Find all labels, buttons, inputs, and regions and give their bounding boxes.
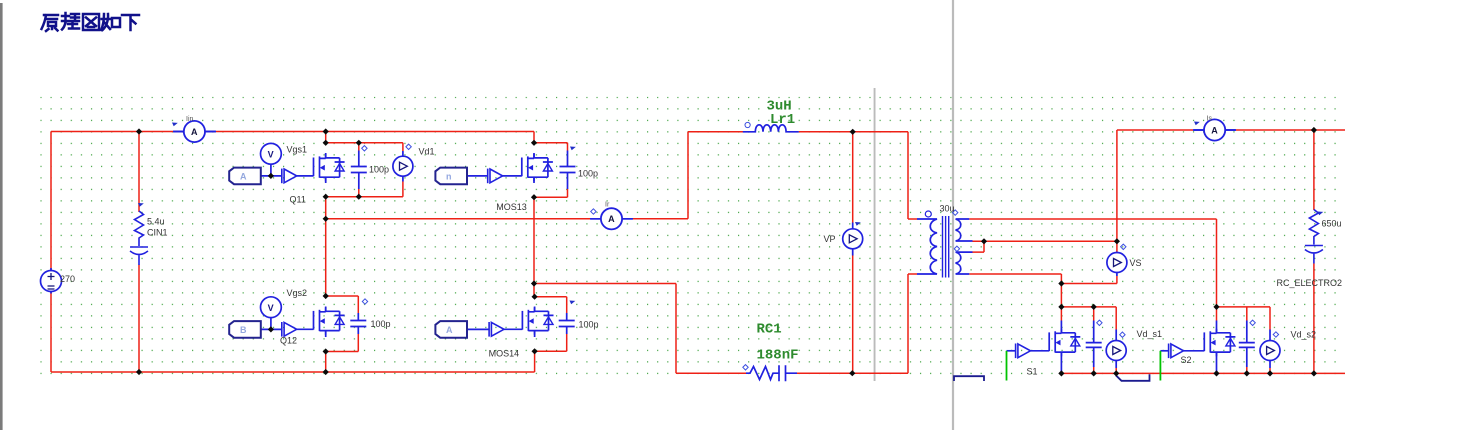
- transistor S1: [1027, 329, 1081, 377]
- wire CIN1 branch top: [138, 132, 140, 213]
- svg-text:B: B: [240, 325, 247, 335]
- wire center tap: [973, 241, 1117, 252]
- wire Vd_s2 stubs: [1269, 330, 1271, 369]
- svg-text:A: A: [446, 325, 453, 335]
- wire Q11 drain drop: [325, 132, 327, 143]
- node Lr1 out: [850, 129, 856, 135]
- svg-text:100p: 100p: [578, 169, 598, 179]
- svg-text:Vd1: Vd1: [419, 147, 435, 157]
- transistor Q12: [280, 307, 345, 345]
- ammeter A2 (Ir): [591, 202, 633, 230]
- transistor S2: [1181, 329, 1236, 365]
- capacitor C2 100p: [560, 151, 576, 190]
- voltmeter VP: [824, 222, 863, 249]
- capacitor C3 100p: [350, 313, 366, 334]
- node S1 box TL: [1058, 304, 1064, 310]
- node Q11 cap top: [356, 140, 362, 146]
- node S2 source rail: [1213, 370, 1219, 376]
- wire Q12 drain blue stub: [325, 307, 327, 338]
- svg-text:Vd_s1: Vd_s1: [1137, 329, 1163, 339]
- voltage source V1 270V: [41, 268, 76, 294]
- node Q11 box BL: [323, 194, 329, 200]
- voltmeter Vgs2: [261, 288, 308, 318]
- wire Q12 gate link: [297, 328, 314, 330]
- svg-text:5.4u: 5.4u: [147, 217, 165, 227]
- buffer U3: [282, 322, 297, 337]
- voltmeter Vd1: [393, 144, 435, 176]
- wire right leg mid: [533, 197, 535, 297]
- capacitor C4 100p: [559, 313, 575, 334]
- wire MOS14 box: [535, 297, 567, 352]
- node S1 source rail: [1058, 370, 1064, 376]
- wire S1 gate green-link: [1007, 350, 1016, 352]
- title 原理图如下 (drawn strokes): [42, 13, 140, 31]
- wire MOS14 source to bottom rail: [534, 351, 536, 372]
- clipped component below transformer: [954, 376, 984, 381]
- wire S1 gate drive (green): [1006, 351, 1008, 381]
- node S2 drain: [1213, 304, 1219, 310]
- node VS top: [1114, 238, 1120, 244]
- svg-text:Q11: Q11: [290, 195, 306, 205]
- node Q11 box TL: [323, 140, 329, 146]
- wire S2 source lead: [1216, 352, 1218, 373]
- wire S2 cap lead: [1246, 321, 1248, 368]
- node S1 cap top: [1091, 304, 1097, 310]
- wire secondary top to S2: [969, 219, 1216, 307]
- grid dot field: [40, 97, 1337, 375]
- wire MOS13 drain blue stub: [533, 153, 535, 183]
- ammeter Is: [1194, 116, 1236, 141]
- svg-text:S2: S2: [1181, 355, 1192, 365]
- wire S2 drain lead: [1216, 321, 1218, 333]
- wire Q11 gate link: [297, 175, 314, 177]
- page divider line (full height): [952, 0, 954, 430]
- transformer TX1 30u: [917, 216, 973, 278]
- capacitor C6 (S2 snubber): [1239, 343, 1255, 348]
- wire bridge mid to ammeter: [326, 132, 744, 219]
- voltmeter VS: [1107, 244, 1142, 272]
- voltmeter Vd_s2: [1260, 330, 1316, 361]
- wire top rail left: [51, 131, 534, 133]
- wire Q12 box: [326, 296, 359, 352]
- svg-text:Ir: Ir: [605, 202, 610, 209]
- wire VS bottom link: [1061, 276, 1117, 284]
- transistor MOS13: [496, 154, 553, 212]
- wire S1 cap lead: [1093, 321, 1095, 368]
- wire VP branch: [852, 132, 854, 373]
- node bridge mid left: [323, 216, 329, 222]
- node Vd_s1 rail: [1113, 370, 1119, 376]
- node Q12 rail: [323, 369, 329, 375]
- capacitor CIN1 electrolytic: [130, 203, 168, 265]
- node Vd_s2 rail: [1267, 370, 1273, 376]
- wire Vgs1 stub: [270, 164, 272, 176]
- wire output ground rail: [1061, 372, 1345, 374]
- wire Vgs2 stub: [270, 318, 272, 330]
- wire left rail: [50, 132, 52, 373]
- node Vgs2 tap: [268, 326, 274, 332]
- wire S1 drain lead: [1060, 321, 1062, 333]
- wire S1 box: [1061, 307, 1116, 374]
- wire CIN1 branch bottom: [138, 265, 140, 373]
- wire S2 gate green-link: [1160, 350, 1168, 352]
- page divider line (short, inside schematic): [874, 88, 876, 381]
- buffer U1: [282, 169, 297, 184]
- inductor Lr1 3uH: [743, 99, 799, 132]
- node Vgs1 tap: [268, 173, 274, 179]
- node sec bottom branch: [1058, 280, 1064, 286]
- wire Q11 drain blue stub: [325, 153, 327, 183]
- wire S2 drain drop: [1216, 307, 1218, 321]
- node Q12 source: [323, 348, 329, 354]
- transistor Q11: [290, 154, 345, 205]
- svg-text:Iin: Iin: [186, 116, 194, 123]
- wire bottom rail left: [51, 371, 535, 373]
- node S2 cap rail: [1244, 370, 1250, 376]
- wire VS top stub: [1116, 241, 1118, 251]
- ammeter A1 (Iin): [172, 116, 215, 142]
- capacitor C1 100p: [351, 151, 367, 190]
- node 650u top: [1311, 127, 1317, 133]
- node Q12 drain: [323, 293, 329, 299]
- svg-text:Lr1: Lr1: [770, 112, 795, 128]
- port B (Q12 gate input): [229, 321, 261, 338]
- svg-text:A: A: [240, 171, 247, 181]
- capacitor RC_ELECTRO2 650u output: [1277, 210, 1343, 289]
- svg-text:MOS13: MOS13: [496, 202, 527, 212]
- svg-text:MOS14: MOS14: [489, 349, 520, 359]
- svg-text:Is: Is: [1207, 116, 1213, 123]
- wire output top rail: [1117, 130, 1345, 241]
- port n (MOS13 gate input): [435, 168, 467, 185]
- buffer U4: [489, 322, 504, 337]
- node Q11 cap bottom: [356, 194, 362, 200]
- svg-text:100p: 100p: [371, 319, 391, 329]
- wire S1 gate link: [1031, 350, 1050, 352]
- svg-text:S1: S1: [1027, 367, 1038, 377]
- port A2 (MOS14 gate input): [435, 321, 467, 338]
- port A (Q11 gate input): [229, 168, 261, 185]
- wire MOS13 box: [534, 143, 568, 197]
- wire port A2 to buffer MOS14: [465, 328, 489, 330]
- svg-text:270: 270: [60, 274, 75, 284]
- wire Vd_s1 stubs: [1115, 330, 1117, 369]
- svg-text:Vgs1: Vgs1: [287, 145, 308, 155]
- node MOS14 source: [532, 348, 538, 354]
- node RC1 out: [849, 370, 855, 376]
- wire port B to buffer Q12: [259, 328, 282, 330]
- wire S2 box: [1217, 307, 1271, 374]
- wire S2 gate link: [1184, 350, 1205, 352]
- svg-text:650u: 650u: [1322, 219, 1342, 229]
- svg-text:30u: 30u: [940, 204, 955, 214]
- wire Vd1 stubs: [402, 151, 404, 182]
- wire secondary bottom to S1: [969, 274, 1061, 307]
- clipped probe box below S1: [1116, 374, 1150, 381]
- node 650u rail: [1311, 370, 1317, 376]
- voltmeter Vgs1: [261, 143, 308, 164]
- node Q11 drain: [323, 128, 329, 134]
- node MOS14 drain: [532, 294, 538, 300]
- wire port n to buffer MOS13: [465, 175, 488, 177]
- capacitor C5 (S1 snubber): [1086, 343, 1102, 348]
- wire Q12 source drop: [325, 352, 327, 373]
- wire ammeter A2 stubs: [590, 218, 633, 220]
- wire inductor out to transformer: [799, 132, 917, 219]
- wire MOS13 gate link: [503, 175, 522, 177]
- node S1 cap rail: [1091, 370, 1097, 376]
- svg-text:RC1: RC1: [757, 322, 782, 338]
- wire MOS14 gate link: [504, 328, 522, 330]
- svg-text:Vgs2: Vgs2: [287, 288, 308, 298]
- buffer U5 (S1 driver): [1016, 344, 1031, 359]
- wire Q11 snubber box: [326, 143, 403, 197]
- svg-text:Q12: Q12: [280, 336, 297, 346]
- wire S1 source lead: [1060, 352, 1062, 373]
- wire MOS13 drain drop: [533, 132, 535, 143]
- wire VS stubs: [1116, 252, 1118, 277]
- buffer U6 (S2 driver): [1169, 344, 1184, 359]
- svg-text:Vd_s2: Vd_s2: [1291, 330, 1317, 340]
- node CIN1 top: [136, 128, 142, 134]
- wire 650u branch: [1313, 130, 1315, 373]
- wire mid2 to bottom: [534, 284, 746, 374]
- svg-text:100p: 100p: [369, 165, 389, 175]
- voltmeter Vd_s1: [1106, 329, 1162, 361]
- svg-text:VS: VS: [1130, 258, 1142, 268]
- wire ammeter A1 stubs: [173, 131, 216, 133]
- node center tap: [981, 238, 987, 244]
- node CIN1 bottom: [136, 369, 142, 375]
- wire S2 gate drive (green): [1159, 351, 1161, 381]
- resistor-capacitor RC1 188nF (series blocking): [743, 322, 799, 382]
- wire port A to buffer Q11: [259, 175, 282, 177]
- svg-text:CIN1: CIN1: [147, 228, 168, 238]
- node MOS13 drain: [531, 140, 537, 146]
- node MOS13 source: [531, 194, 537, 200]
- svg-text:VP: VP: [824, 234, 836, 244]
- wire VP stubs: [852, 223, 854, 256]
- svg-text:100p: 100p: [579, 320, 599, 330]
- left window border bar: [0, 3, 3, 430]
- node bridge mid right: [531, 280, 537, 286]
- svg-text:RC_ELECTRO2: RC_ELECTRO2: [1277, 278, 1343, 288]
- wire ammeter Is stubs: [1193, 129, 1236, 131]
- buffer U2: [488, 169, 503, 184]
- wire Q11 cap branch ends: [358, 143, 360, 197]
- svg-text:n: n: [446, 172, 452, 182]
- wire left leg mid: [325, 197, 327, 296]
- wire RC1 to transformer bottom: [797, 274, 917, 373]
- transistor MOS14: [489, 307, 554, 358]
- svg-text:188nF: 188nF: [757, 348, 799, 364]
- wire MOS14 drain blue stub: [534, 307, 536, 338]
